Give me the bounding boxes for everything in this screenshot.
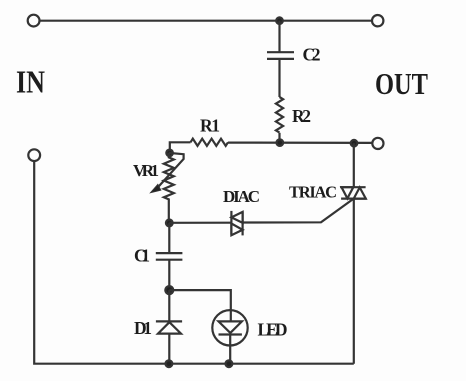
wire TRIAC lower lead (353, 199, 355, 364)
wire top rail (40, 20, 372, 22)
node bottom junction LED (226, 360, 233, 367)
wire mid rail (228, 142, 372, 144)
node VR1 wiper junction (166, 150, 173, 157)
capacitor C2 (267, 52, 294, 59)
node C1 bottom junction (165, 286, 173, 294)
terminal IN-bottom (28, 149, 40, 161)
terminal OUT-mid (372, 138, 383, 149)
wire VR1 to DIAC (169, 222, 231, 224)
node mid junction TRIAC (351, 140, 358, 147)
svg-text:R1: R1 (200, 116, 220, 136)
node mid junction R2 (277, 139, 284, 146)
svg-text:R2: R2 (292, 106, 311, 126)
node VR1 bottom junction (166, 220, 173, 227)
svg-text:OUT: OUT (375, 66, 428, 101)
node top junction (276, 17, 283, 24)
wire VR1 to C1 (168, 223, 170, 253)
node bottom junction D1 (166, 360, 173, 367)
resistor R2 (276, 97, 283, 133)
potentiometer VR1 (151, 153, 184, 223)
LED (212, 310, 247, 364)
terminal OUT-top (372, 15, 383, 26)
wire R1 left lead (170, 142, 191, 153)
terminal IN-top (28, 15, 40, 27)
svg-text:C2: C2 (303, 45, 321, 65)
svg-text:TRIAC: TRIAC (289, 182, 337, 201)
svg-text:D1: D1 (134, 318, 152, 338)
wire node to D1 (168, 290, 170, 321)
wire C2 to R2 (278, 59, 280, 97)
wire left rail (34, 161, 354, 364)
svg-text:IN: IN (16, 63, 45, 99)
wire DIAC to TRIAC gate (243, 199, 354, 223)
wire TRIAC upper lead (353, 143, 355, 187)
wire C2 upper lead (278, 21, 280, 52)
svg-text:C1: C1 (134, 245, 150, 265)
wire D1 lower lead (168, 334, 170, 364)
resistor R1 (191, 139, 228, 146)
triac TRIAC (340, 187, 367, 198)
svg-text:DIAC: DIAC (223, 187, 260, 206)
diode D1 (156, 321, 182, 333)
svg-text:VR1: VR1 (133, 161, 159, 180)
wire node to LED (169, 290, 231, 310)
wire C1 to node (168, 260, 170, 290)
wire R2 lower lead (278, 133, 280, 143)
svg-text:LED: LED (258, 320, 288, 340)
capacitor C1 (156, 253, 183, 260)
diac DIAC (231, 211, 242, 236)
